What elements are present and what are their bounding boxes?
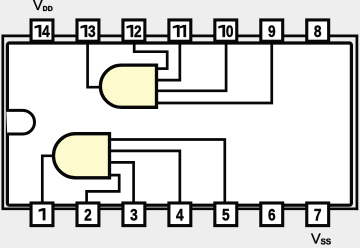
pin 11 number label: [173, 25, 180, 37]
svg-text:9: 9: [268, 23, 276, 41]
wire VDD rail: top horizontal (behind pin boxes 14-8): [2, 35, 359, 38]
pin-1 notch (left-edge indent bump): [6, 110, 34, 134]
svg-text:0: 0: [226, 23, 234, 41]
pin 12 number label: [126, 25, 133, 37]
svg-text:3: 3: [88, 23, 96, 41]
pin 13 number label: [80, 25, 87, 37]
svg-text:6: 6: [268, 206, 276, 224]
AND gate U1A (top, output faces left): [100, 65, 156, 107]
wire pin 10 to gate U1A input 3: [157, 41, 226, 91]
svg-text:4: 4: [176, 206, 184, 224]
pin 14 number label: [35, 25, 42, 37]
pin 8 box: [307, 20, 329, 41]
pin 11 box: [169, 20, 191, 41]
svg-text:8: 8: [314, 23, 322, 41]
pin 1 box: [31, 203, 53, 226]
pin 4 box: [169, 203, 191, 226]
wire pin 9 to gate U1A input 4: [157, 41, 272, 103]
pin 12 box: [123, 20, 145, 41]
wire pin 13 to gate U1A output: [88, 41, 103, 87]
pin 10 box: [215, 20, 237, 41]
svg-text:5: 5: [222, 206, 230, 224]
pin 3 box: [123, 203, 145, 226]
wire gate U1B output to pin 1: [42, 156, 55, 204]
svg-text:4: 4: [42, 23, 50, 41]
pin 9 box: [261, 20, 283, 41]
svg-text:2: 2: [84, 206, 92, 224]
pin 13 box: [77, 20, 99, 41]
pin 6 box: [261, 203, 283, 226]
wire VDD rail: bottom horizontal: [2, 207, 359, 210]
IC body DIP-14 outline: [7, 43, 351, 205]
svg-text:2: 2: [134, 23, 142, 41]
svg-text:3: 3: [130, 206, 138, 224]
pin 1 number label: [39, 208, 46, 220]
wire VDD rail: right vertical: [356, 35, 359, 211]
pin 14 box: [31, 20, 53, 41]
pin 7 box: [307, 203, 329, 226]
wire gate U1B input 4 to pin 2: [87, 175, 120, 204]
wire pin 11 to gate U1A input 2: [157, 41, 180, 80]
wire gate U1B input 1 to pin 5: [110, 140, 225, 205]
wire gate U1B input 2 to pin 4: [110, 151, 180, 204]
wire gate U1B input 3 to pin 3: [110, 162, 134, 204]
AND gate U1B (bottom, output faces left): [54, 134, 110, 178]
wire VDD rail: left vertical: [1, 35, 4, 209]
pin 10 number label: [218, 25, 225, 37]
pin 5 box: [215, 203, 237, 226]
wire pin 12 to gate U1A input 1: [134, 41, 167, 68]
svg-text:7: 7: [314, 206, 322, 224]
pin 2 box: [77, 203, 99, 226]
